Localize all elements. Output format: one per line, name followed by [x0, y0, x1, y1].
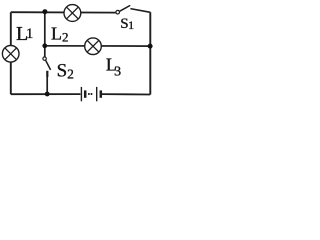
node junction bottom	[45, 92, 50, 97]
wire bottom right (corner to battery)	[102, 93, 150, 95]
switch S1	[116, 5, 130, 14]
wire L3 branch horizontal	[45, 45, 151, 47]
switch S2	[43, 57, 51, 77]
node junction top	[42, 9, 47, 14]
lamp L3	[85, 38, 102, 55]
lamp L2	[64, 5, 81, 22]
svg-text:S1: S1	[120, 16, 134, 32]
wire right border	[149, 12, 151, 94]
battery dots	[88, 93, 90, 95]
wire middle vertical branch	[44, 12, 46, 57]
battery	[81, 87, 100, 101]
battery plate long 1	[80, 87, 82, 101]
node junction middle	[42, 43, 47, 48]
wire top (left corner to switch S1)	[11, 11, 116, 13]
battery plate short 1	[84, 90, 87, 97]
node junction right	[148, 44, 153, 49]
svg-text:L1: L1	[16, 23, 33, 45]
lamp L1	[2, 46, 19, 63]
battery plate short 2	[100, 90, 103, 97]
battery plate long 2	[96, 87, 98, 101]
wire left border	[10, 12, 12, 94]
wire below S2 to bottom	[46, 77, 48, 94]
wire after S1 to top-right corner	[130, 9, 150, 13]
wire bottom left (battery to corner)	[11, 93, 81, 95]
